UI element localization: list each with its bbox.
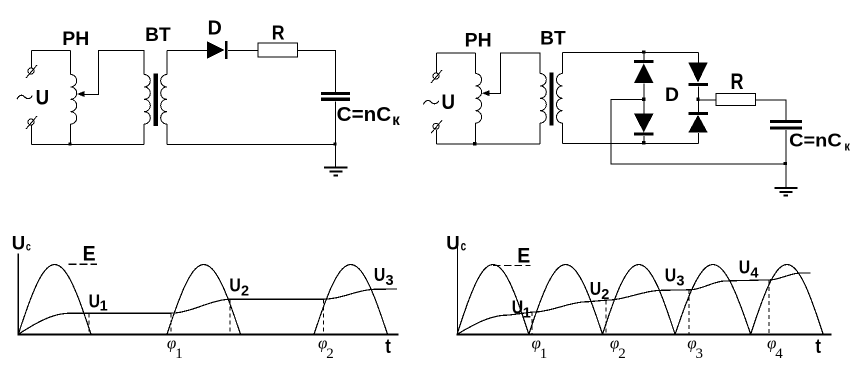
svg-text:1: 1 <box>175 346 183 362</box>
chart 1 rectified half-wave pulse 1 <box>18 265 91 335</box>
chart 1 axis label Uc <box>12 233 31 255</box>
wire: left branch top stub <box>643 53 645 61</box>
chart 2 label phi1 <box>532 333 548 362</box>
chart 2 x-axis (t) <box>457 333 832 335</box>
svg-text:D: D <box>665 84 679 106</box>
node: junction at ground (circuit 2) <box>784 162 787 165</box>
chart 1 dashed marker U1 <box>88 314 90 335</box>
svg-text:U: U <box>12 233 25 255</box>
chart 2 rectified full-wave pulse 3 <box>603 265 676 335</box>
chart 2 rectified full-wave pulse 2 <box>529 265 603 335</box>
chart 1 label phi1 <box>167 333 183 362</box>
resistor R (circuit 1) <box>258 43 297 57</box>
transformer BT secondary winding (circuit 2) <box>562 53 564 74</box>
wire: capacitor to ground rail (circuit 2) <box>785 130 787 164</box>
wire: right branch bottom stub <box>698 133 700 143</box>
terminal X3 (plug symbol) <box>431 70 442 83</box>
capacitor C=nCk (circuit 1) <box>321 92 350 95</box>
node: right bridge midpoint <box>696 98 699 101</box>
svg-text:4: 4 <box>750 265 758 281</box>
chart 2 dashed marker phi4 <box>768 280 770 334</box>
svg-text:U: U <box>446 233 459 255</box>
svg-text:U: U <box>89 292 100 312</box>
chart 2 dashed marker phi2 <box>605 301 607 335</box>
resistor R (circuit 2) <box>716 93 755 105</box>
svg-text:U: U <box>36 86 50 110</box>
chart 2 y-axis (Uc) <box>456 244 458 334</box>
svg-text:2: 2 <box>326 346 334 362</box>
wire: bottom rail, source loop (circuit 2) <box>437 143 541 145</box>
svg-text:3: 3 <box>696 346 704 362</box>
chart 2 label phi3 <box>687 333 703 362</box>
svg-text:U: U <box>739 257 750 277</box>
chart 2 label U1 <box>512 297 531 321</box>
svg-text:D: D <box>208 18 222 40</box>
chart 1 x-axis (t) <box>18 333 399 335</box>
chart 1 capacitor charging curve <box>18 289 397 334</box>
svg-text:PH: PH <box>465 30 492 51</box>
svg-text:1: 1 <box>540 346 548 362</box>
svg-text:R: R <box>272 23 285 45</box>
wire: left branch bottom stub <box>643 136 645 143</box>
svg-text:t: t <box>385 336 391 358</box>
wire: bridge bottom rail <box>563 142 699 144</box>
chart 2 rectified full-wave pulse 5 <box>751 265 824 335</box>
svg-text:2: 2 <box>618 346 626 362</box>
chart 2 dashed marker phi3 <box>688 290 690 334</box>
chart 2 dashed level E <box>493 264 531 266</box>
chart 1 dashed marker phi2 <box>323 300 325 335</box>
chart 1 label U3 <box>374 265 394 289</box>
svg-text:2: 2 <box>601 287 609 303</box>
svg-text:E: E <box>83 243 96 266</box>
svg-text:U: U <box>590 279 601 299</box>
transformer BT primary winding <box>144 75 150 125</box>
wire: left lead to terminal X1 <box>31 51 33 69</box>
wire: secondary top rail to diode D <box>167 50 208 52</box>
svg-text:U: U <box>374 265 385 285</box>
chart 2 label phi2 <box>610 333 626 362</box>
diode VD1 (bridge, left top, cathode up) <box>634 60 654 63</box>
svg-text:1: 1 <box>523 305 531 321</box>
wire: top rail, source loop (circuit 2) <box>437 52 476 54</box>
node: junction at PH coil bottom <box>68 142 71 145</box>
chart 2 rectified full-wave pulse 1 <box>457 265 529 335</box>
svg-text:U: U <box>229 276 240 296</box>
svg-text:C=nC: C=nC <box>337 104 392 126</box>
svg-text:C=nC: C=nC <box>789 129 842 150</box>
diode VD4 (bridge, right bottom, cathode up) <box>688 112 708 115</box>
wire: left lead from terminal X2 <box>31 126 33 145</box>
capacitor C=nCk (circuit 2) <box>770 120 802 123</box>
wire: bottom rail, secondary loop (circuit 1) <box>167 144 336 146</box>
chart 2 dashed marker phi1 <box>531 312 533 334</box>
chart 1 dashed marker phi1 <box>170 314 172 335</box>
wire: resistor to capacitor node <box>298 51 336 93</box>
transformer BT core (circuit 2) <box>549 73 553 126</box>
node: left bridge midpoint <box>642 98 645 101</box>
chart 2 axis label Uc <box>446 233 466 255</box>
wire: diode to resistor R <box>228 50 258 52</box>
wire: PH tap with arrow to BT primary <box>80 51 145 95</box>
wire: right branch top stub <box>698 53 700 64</box>
wire: left lead to terminal X3 <box>436 53 438 74</box>
wire: left branch middle <box>643 84 645 115</box>
chart 2 label phi4 <box>767 333 783 362</box>
svg-text:1: 1 <box>100 299 108 315</box>
AC source label ~U <box>17 95 32 99</box>
AC source label ~U (circuit 2) <box>424 100 439 104</box>
chart 2 label U4 <box>739 257 759 281</box>
node: junction at capacitor/ground <box>333 142 336 145</box>
wire: positive output to resistor R <box>699 99 717 101</box>
svg-text:U: U <box>512 297 523 317</box>
chart 1 label U2 <box>229 276 249 300</box>
svg-text:BT: BT <box>145 25 171 46</box>
wire: bridge top rail <box>563 52 699 54</box>
wire: right branch middle <box>698 86 700 112</box>
transformer BT secondary winding <box>166 51 168 75</box>
transformer BT primary winding (circuit 2) <box>540 74 546 124</box>
chart 1 label phi2 <box>318 333 334 362</box>
svg-text:c: c <box>26 239 31 253</box>
svg-text:2: 2 <box>241 284 249 300</box>
transformer BT core <box>154 74 158 127</box>
svg-text:E: E <box>517 245 530 268</box>
chart 1 dashed level E <box>68 263 96 265</box>
svg-text:t: t <box>815 336 821 358</box>
diode D (circuit 1) <box>207 41 224 59</box>
svg-text:4: 4 <box>775 346 783 362</box>
svg-text:c: c <box>461 238 467 253</box>
chart 1 rectified half-wave pulse 3 <box>314 265 388 335</box>
svg-text:U: U <box>442 90 456 114</box>
svg-text:3: 3 <box>386 273 394 289</box>
chart 2 rectified full-wave pulse 4 <box>675 265 751 335</box>
chart 1 dashed marker U2 <box>229 300 231 335</box>
svg-text:к: к <box>392 112 400 129</box>
node: junction, bottom of left bridge branch <box>642 141 645 144</box>
chart 1 y-axis (Uc) <box>17 254 19 335</box>
wire: capacitor to bottom rail <box>335 101 337 144</box>
wire: resistor to capacitor (circuit 2) <box>756 100 786 121</box>
diode VD2 (bridge, left bottom, cathode down) <box>634 114 654 133</box>
autotransformer PH winding <box>70 51 72 75</box>
terminal X2 (plug symbol) <box>26 116 37 129</box>
svg-text:BT: BT <box>540 29 566 50</box>
diode VD3 (bridge, right top, cathode down) <box>688 63 707 83</box>
wire: negative output from left midpoint to ground rail <box>611 100 786 164</box>
chart 2 label U2 <box>590 279 610 303</box>
node: junction, top of left bridge branch <box>642 50 645 53</box>
ground (circuit 2) <box>785 164 787 187</box>
svg-text:3: 3 <box>676 273 684 289</box>
svg-text:U: U <box>665 265 676 285</box>
chart 1 label U1 <box>89 292 108 315</box>
chart 2 capacitor charging curve <box>457 273 810 334</box>
chart 2 label U3 <box>665 265 685 289</box>
wire: PH tap with arrow to BT primary (circuit 2) <box>485 53 541 94</box>
wire: top rail, source loop (circuit 1) <box>32 50 71 52</box>
autotransformer PH winding (circuit 2) <box>474 53 476 74</box>
ground (circuit 1) <box>335 145 337 167</box>
terminal X1 (plug symbol) <box>26 65 37 78</box>
wire: bottom rail, source loop (circuit 1) <box>32 144 145 146</box>
chart 1 rectified half-wave pulse 2 <box>167 265 241 335</box>
node: junction at PH coil bottom (circuit 2) <box>473 142 476 145</box>
wire: left lead from terminal X4 <box>436 130 438 144</box>
svg-text:R: R <box>731 69 744 94</box>
svg-text:PH: PH <box>62 29 89 50</box>
terminal X4 (plug symbol) <box>431 120 442 133</box>
svg-text:к: к <box>844 139 850 154</box>
